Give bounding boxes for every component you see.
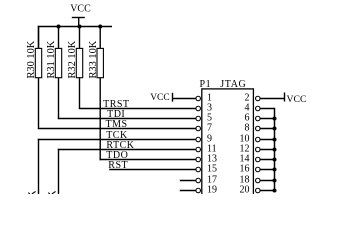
svg-text:15: 15 (207, 164, 217, 175)
svg-text:8: 8 (245, 123, 250, 134)
svg-text:R30 10K: R30 10K (26, 40, 37, 78)
svg-text:20: 20 (240, 185, 250, 194)
svg-text:JTAG: JTAG (220, 79, 246, 90)
svg-text:16: 16 (240, 164, 250, 175)
svg-text:R33 10K: R33 10K (88, 40, 99, 78)
svg-text:R31 10K: R31 10K (46, 40, 57, 78)
svg-text:19: 19 (207, 185, 217, 194)
svg-text:VCC: VCC (287, 94, 307, 105)
svg-text:RST: RST (108, 160, 128, 171)
svg-text:R32 10K: R32 10K (67, 40, 78, 78)
svg-text:TMS: TMS (106, 119, 128, 130)
svg-text:VCC: VCC (70, 4, 91, 15)
svg-text:7: 7 (207, 123, 212, 134)
svg-text:P1: P1 (200, 79, 212, 90)
svg-text:VCC: VCC (150, 93, 170, 103)
